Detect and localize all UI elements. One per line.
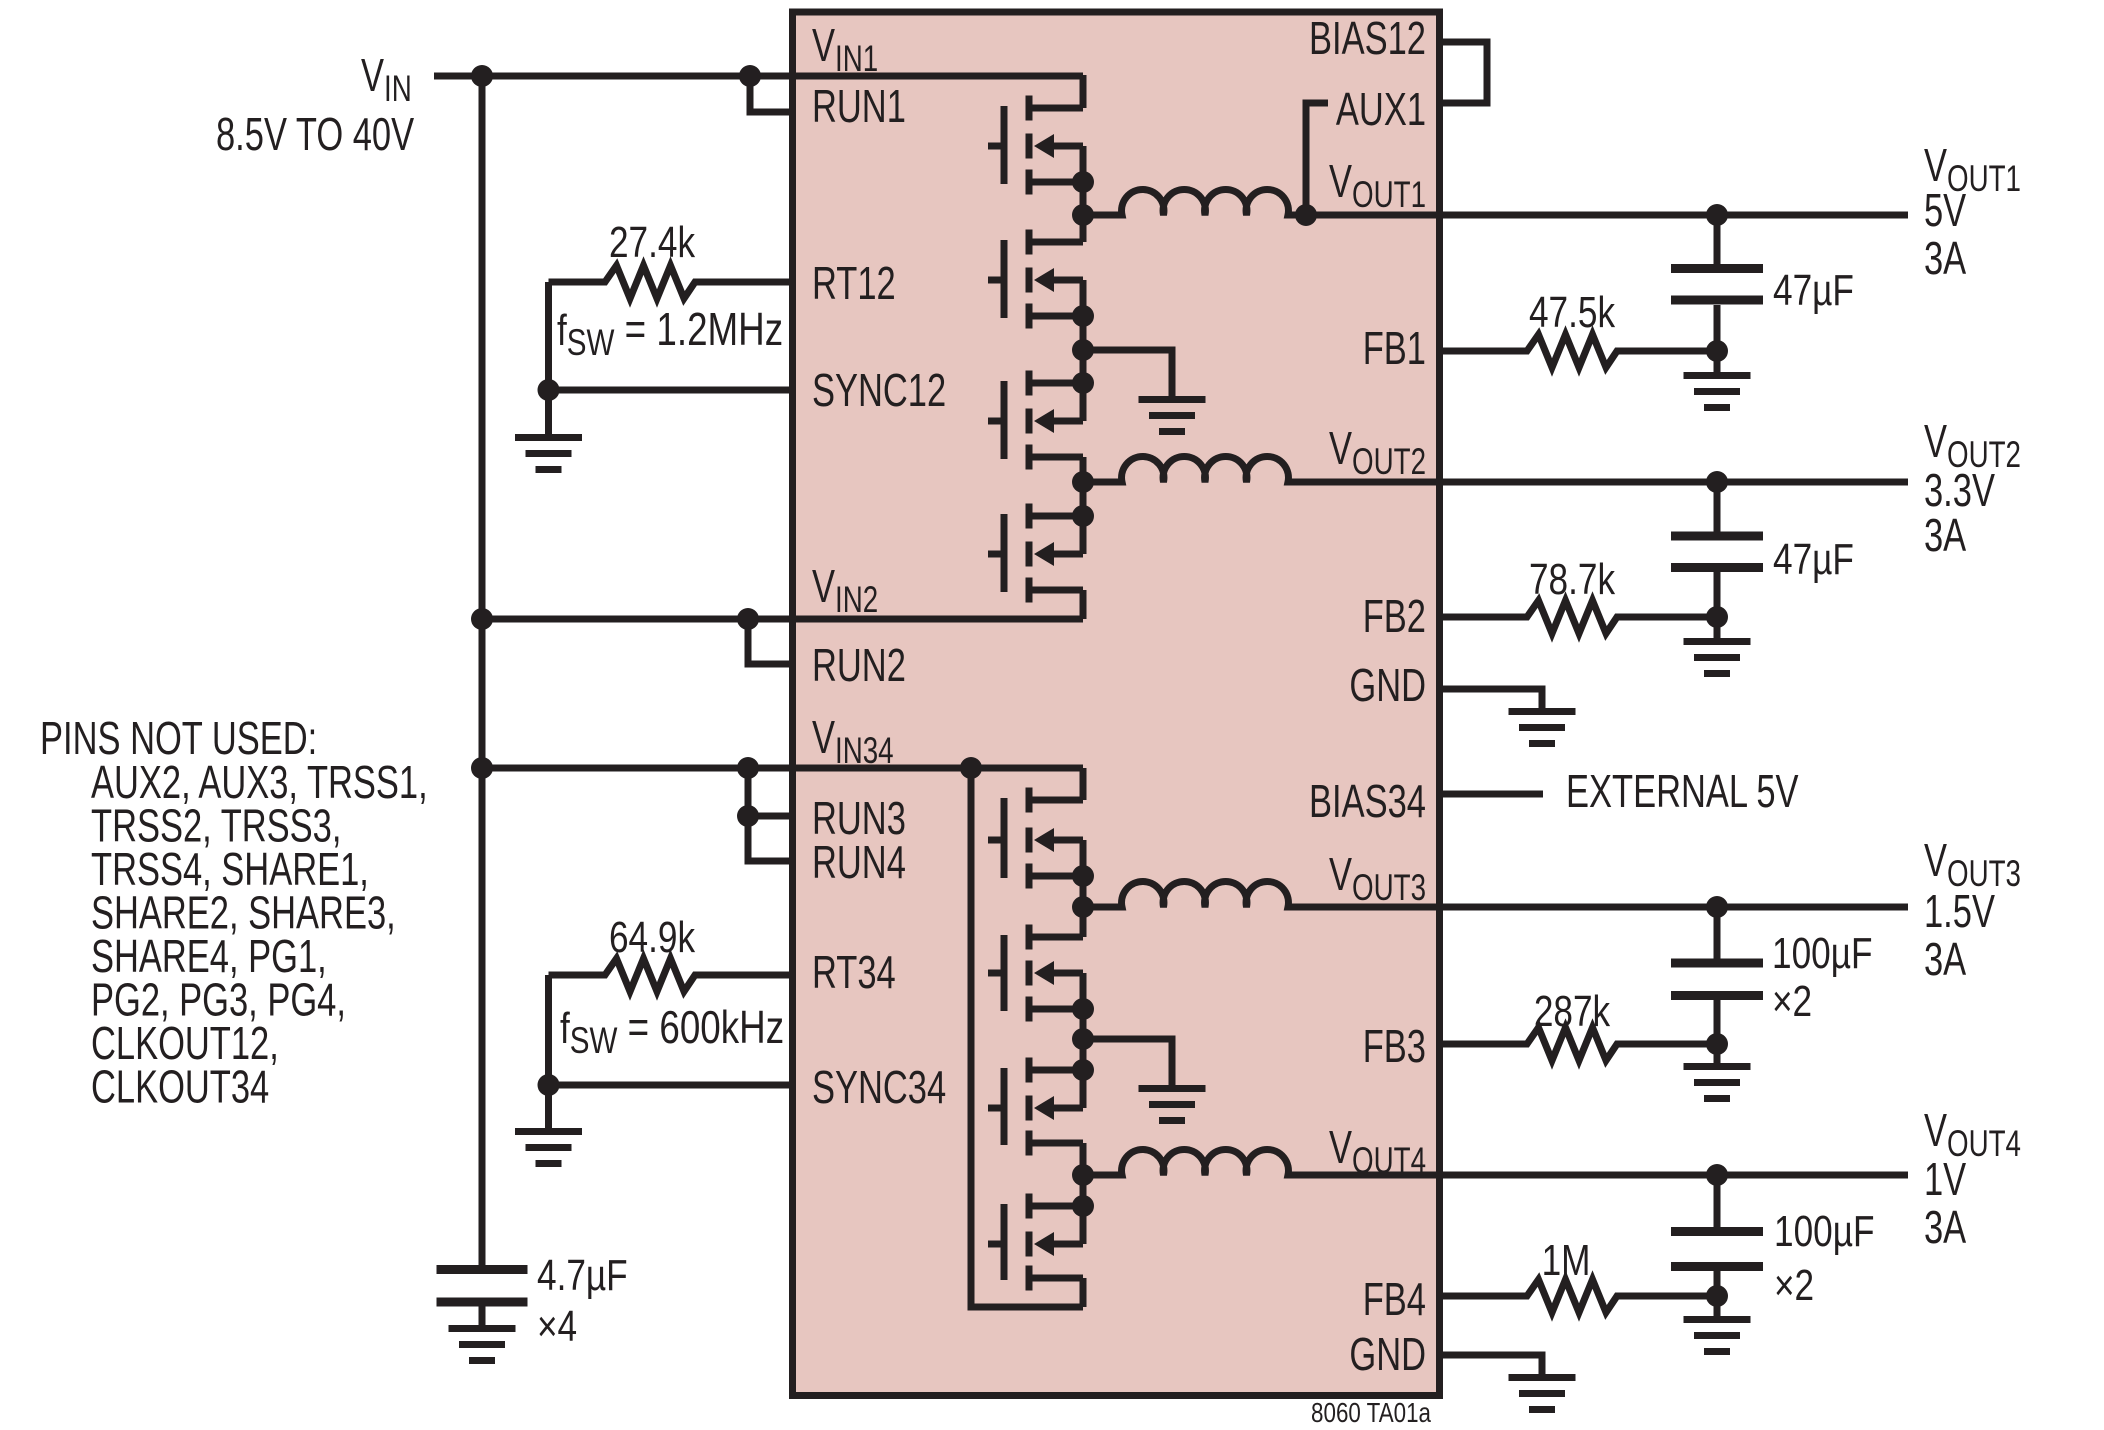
svg-text:1.5V: 1.5V (1924, 885, 1995, 937)
wire RUN3 jog (748, 768, 796, 816)
svg-text:287k: 287k (1534, 987, 1610, 1036)
wire RUN2 jog (748, 619, 796, 664)
ground (FB3/C3) (1714, 1044, 1721, 1067)
svg-text:64.9k: 64.9k (609, 913, 695, 962)
capacitor C4 100uF x2 (1671, 1227, 1763, 1236)
svg-text:47µF: 47µF (1773, 535, 1854, 584)
svg-text:8060 TA01a: 8060 TA01a (1311, 1398, 1432, 1429)
junction VOUT3-C3 (1706, 896, 1728, 918)
inductor L1 (1083, 189, 1908, 215)
junction ground tap CH3/4 (1072, 1028, 1094, 1050)
svg-text:RUN2: RUN2 (812, 639, 906, 691)
svg-text:1M: 1M (1542, 1236, 1591, 1285)
junction FB2 node (1706, 606, 1728, 628)
capacitor CIN 4.7uF x4 (437, 1265, 528, 1274)
wire C2 bottom stem (1714, 572, 1721, 617)
svg-text:3A: 3A (1924, 1201, 1967, 1253)
capacitor C2 47uF (1671, 532, 1763, 541)
inductor L4 (1083, 1149, 1908, 1175)
wire C1 top stem (1714, 215, 1721, 264)
junction Q3 drain (1072, 372, 1094, 394)
junction SW4 node (1072, 1164, 1094, 1186)
junction VOUT1-C1 (1706, 204, 1728, 226)
inductor L3 (1083, 881, 1908, 907)
svg-text:fSW = 1.2MHz: fSW = 1.2MHz (557, 303, 783, 364)
junction VOUT2-C2 (1706, 471, 1728, 493)
svg-text:EXTERNAL 5V: EXTERNAL 5V (1566, 765, 1799, 817)
ground (internal CH1/2) (1139, 396, 1206, 403)
junction RUN4 tap (737, 805, 759, 827)
junction SW1 node (1072, 204, 1094, 226)
wire VIN34 to Q5 (960, 765, 1083, 772)
junction AUX1-VOUT1 (1295, 204, 1317, 226)
junction FB4 node (1706, 1285, 1728, 1307)
wire SYNC12 (549, 387, 797, 394)
svg-text:FB2: FB2 (1363, 590, 1426, 642)
wire RUN1 jog (750, 76, 796, 112)
junction SYNC12 node (538, 379, 560, 401)
svg-text:100µF: 100µF (1774, 1207, 1874, 1256)
wire ground tap CH3/4 (1083, 1039, 1172, 1089)
svg-text:BIAS12: BIAS12 (1309, 12, 1426, 64)
svg-text:×2: ×2 (1774, 1261, 1814, 1310)
svg-text:BIAS34: BIAS34 (1309, 775, 1426, 827)
ground (FB4/C4) (1714, 1296, 1721, 1320)
svg-text:GND: GND (1349, 1328, 1426, 1380)
svg-text:4.7µF: 4.7µF (537, 1251, 628, 1300)
svg-text:47.5k: 47.5k (1529, 288, 1615, 337)
wire VIN2 branch (482, 616, 1083, 623)
svg-text:GND: GND (1349, 659, 1426, 711)
wire GND pin upper (1439, 689, 1542, 712)
svg-text:RT34: RT34 (812, 946, 896, 998)
resistor RFB2 78.7k (1439, 601, 1717, 634)
wire RUN4 jog (748, 816, 796, 861)
junction FB1 node (1706, 340, 1728, 362)
junction SW3 node (1072, 896, 1094, 918)
junction Q4 drain (1072, 505, 1094, 527)
svg-text:RUN1: RUN1 (812, 80, 906, 132)
ground (SYNC34) (545, 1085, 552, 1132)
resistor RT34 64.9k (549, 959, 797, 992)
svg-text:VIN: VIN (361, 49, 412, 109)
wire BIAS12-AUX1 jumper (1443, 42, 1487, 103)
ground (GND pin upper) (1509, 708, 1576, 715)
junction Q7 drain (1072, 1059, 1094, 1081)
wire GND pin lower (1439, 1355, 1542, 1378)
svg-text:×2: ×2 (1772, 977, 1812, 1026)
wire C4 bottom stem (1714, 1271, 1721, 1296)
svg-text:3A: 3A (1924, 933, 1967, 985)
junction VIN34 internal (960, 757, 982, 779)
junction SYNC34 node (538, 1074, 560, 1096)
capacitor C3 100uF x2 (1671, 959, 1763, 968)
ground (FB1/C1) (1714, 351, 1721, 376)
junction bus-VIN34 (471, 757, 493, 779)
junction RUN1 tap (739, 65, 761, 87)
resistor RFB4 1M (1439, 1280, 1717, 1313)
ground (internal CH3/4) (1139, 1085, 1206, 1092)
capacitor C1 47uF (1671, 264, 1763, 273)
transistor Q4 (CH2 top switch) (988, 482, 1083, 619)
wire ground tap CH1/2 (1083, 350, 1172, 400)
wire VIN34 branch (482, 765, 960, 772)
svg-text:5V: 5V (1924, 184, 1966, 236)
wire SYNC34 (549, 1082, 797, 1089)
svg-text:78.7k: 78.7k (1529, 555, 1615, 604)
svg-text:RT12: RT12 (812, 257, 896, 309)
ground (FB2/C2) (1714, 617, 1721, 642)
junction Q8 drain (1072, 1195, 1094, 1217)
transistor Q3 (CH2 bottom switch) (988, 350, 1083, 482)
svg-text:SYNC12: SYNC12 (812, 364, 946, 416)
svg-text:1V: 1V (1924, 1153, 1966, 1205)
svg-text:×4: ×4 (537, 1302, 577, 1351)
resistor RFB1 47.5k (1439, 335, 1717, 368)
transistor Q7 (CH4 bottom switch) (988, 1039, 1083, 1175)
wire C1 bottom stem (1714, 305, 1721, 351)
wire C4 top stem (1714, 1175, 1721, 1227)
svg-text:3A: 3A (1924, 232, 1967, 284)
wire VIN input (434, 73, 1083, 80)
resistor RT12 27.4k (549, 266, 797, 299)
ground (SYNC12) (545, 390, 552, 438)
wire C3 bottom stem (1714, 1000, 1721, 1044)
junction FB3 node (1706, 1033, 1728, 1055)
wire VIN34 down rail (971, 768, 1083, 1307)
transistor Q2 (CH1 bottom switch) (988, 215, 1083, 350)
svg-text:100µF: 100µF (1772, 929, 1872, 978)
resistor RFB3 287k (1439, 1028, 1717, 1061)
wire VIN bus (vertical input rail) (479, 76, 486, 1266)
transistor Q6 (CH3 bottom switch) (988, 907, 1083, 1039)
svg-text:FB4: FB4 (1363, 1273, 1426, 1325)
junction VOUT4-C4 (1706, 1164, 1728, 1186)
ground (CIN) (479, 1304, 486, 1329)
junction SW2 node (1072, 471, 1094, 493)
IC module U1 (quad buck regulator, 8060) body (793, 12, 1440, 1396)
svg-text:AUX1: AUX1 (1336, 83, 1426, 135)
wire C2 top stem (1714, 482, 1721, 532)
junction Q2 source (1072, 305, 1094, 327)
junction ground tap CH1/2 (1072, 339, 1094, 361)
svg-text:fSW = 600kHz: fSW = 600kHz (560, 1001, 784, 1062)
ground (GND pin lower) (1509, 1374, 1576, 1381)
junction Q6 source (1072, 998, 1094, 1020)
svg-text:RUN4: RUN4 (812, 836, 906, 888)
transistor Q8 (CH4 top switch) (988, 1175, 1083, 1307)
svg-text:FB1: FB1 (1363, 322, 1426, 374)
junction VIN bus top (471, 65, 493, 87)
wire C3 top stem (1714, 907, 1721, 959)
svg-text:8.5V TO 40V: 8.5V TO 40V (216, 108, 414, 160)
inductor L2 (1083, 456, 1908, 482)
junction RUN3/RUN4 tap (737, 757, 759, 779)
wire RT34 to SYNC34 (545, 975, 552, 1085)
junction bus-VIN2 (471, 608, 493, 630)
junction Q1 source (1072, 171, 1094, 193)
wire RT12 to SYNC12 (545, 282, 552, 390)
svg-text:47µF: 47µF (1773, 266, 1854, 315)
svg-text:FB3: FB3 (1363, 1020, 1426, 1072)
svg-text:CLKOUT34: CLKOUT34 (91, 1061, 269, 1113)
svg-text:3A: 3A (1924, 509, 1967, 561)
junction RUN2 tap (737, 608, 759, 630)
wire BIAS34 stub (1439, 791, 1543, 798)
svg-text:SYNC34: SYNC34 (812, 1061, 946, 1113)
junction Q5 source (1072, 865, 1094, 887)
transistor Q1 (CH1 top switch) (988, 75, 1083, 215)
svg-text:27.4k: 27.4k (609, 218, 695, 267)
wire AUX1 riser (1306, 103, 1328, 215)
transistor Q5 (CH3 top switch) (988, 768, 1083, 907)
